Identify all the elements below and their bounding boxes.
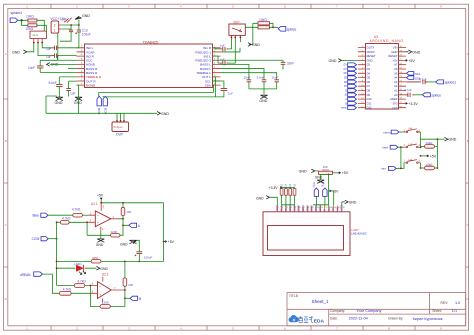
wire caps to RV [213, 27, 253, 63]
pin numbers U3 [361, 46, 403, 108]
svg-text:1uF: 1uF [228, 91, 233, 95]
svg-text:DK: DK [344, 72, 348, 75]
capacitor 5.6nF b [257, 76, 267, 89]
svg-text:1uF: 1uF [70, 91, 76, 95]
svg-text:15nF: 15nF [271, 76, 278, 80]
svg-text:Blue: Blue [33, 214, 40, 218]
svg-text:spkice: spkice [287, 28, 297, 32]
svg-text:3V3: 3V3 [393, 102, 398, 106]
svg-text:GND: GND [252, 43, 260, 47]
power flag +3.3V lcd [269, 186, 295, 190]
capacitor 4.7uF A3 [406, 78, 436, 85]
capacitor 1uF IN1L [220, 58, 229, 66]
wire OUT L [213, 77, 216, 97]
svg-text:D6: D6 [367, 80, 371, 84]
net port lcd K vertical [322, 182, 327, 205]
svg-text:+: + [99, 293, 101, 297]
ARDUINO NANO U3 [358, 35, 406, 110]
power flag +5V U4 [420, 155, 437, 159]
svg-text:spkice1: spkice1 [11, 11, 23, 15]
svg-text:D5: D5 [367, 76, 371, 80]
resistor 10k pair top [258, 18, 269, 29]
pins right U3 [399, 48, 407, 108]
resistor 120K fb U2.1 [86, 221, 123, 237]
svg-text:GND: GND [74, 101, 82, 105]
svg-text:REV:: REV: [441, 301, 449, 305]
resistor 1K pullup d [293, 183, 296, 204]
pins left U3 [358, 48, 366, 108]
svg-text:LED1: LED1 [74, 262, 82, 266]
svg-text:1uF: 1uF [46, 47, 52, 51]
svg-text:D4: D4 [367, 71, 371, 75]
svg-text:5.6nF: 5.6nF [49, 81, 57, 85]
ground flag U4 [437, 137, 457, 141]
resistor 10K pullup U2.1 [121, 203, 131, 226]
TOP LEFT CLUSTER [10, 11, 91, 60]
net port SCM vertical 1 [97, 96, 101, 114]
svg-text:GND: GND [100, 267, 108, 271]
net flag spkice1 right [436, 80, 457, 85]
power flag +5V right [163, 203, 175, 262]
op-amp U2.1 [88, 202, 118, 231]
svg-text:CCW: CCW [32, 237, 40, 241]
wire spkice1 to R divider [18, 20, 28, 25]
LED1 [56, 262, 97, 275]
svg-text:LAB162ADC: LAB162ADC [351, 232, 367, 236]
svg-text:GND: GND [82, 14, 90, 18]
svg-text:TDA8425: TDA8425 [143, 40, 158, 44]
capacitor 1uF vert [60, 30, 73, 41]
svg-text:B: B [5, 139, 7, 143]
resistor 4.7k R2 [57, 217, 89, 225]
svg-text:1K: 1K [293, 183, 296, 186]
svg-text:1K: 1K [289, 183, 292, 186]
svg-text:100uF: 100uF [144, 255, 153, 259]
svg-text:min: min [381, 167, 386, 171]
power flag +3.3V ard [406, 102, 418, 106]
wire resistors to U5 [37, 20, 47, 31]
svg-text:ARDUINO_NANO: ARDUINO_NANO [370, 39, 404, 43]
LEFT OF IC PASSIVES [28, 56, 82, 106]
ground GND top [75, 14, 90, 20]
switch U4.2 [404, 142, 421, 147]
wire bottom bus [46, 96, 157, 122]
svg-text:D12: D12 [367, 106, 372, 110]
svg-text:D7: D7 [367, 84, 371, 88]
wire DGND down [77, 85, 104, 113]
svg-text:spkice: spkice [431, 93, 441, 97]
svg-text:GND: GND [259, 99, 267, 103]
net flag A [129, 223, 141, 228]
wire caps common [249, 89, 277, 95]
svg-text:BLA: BLA [313, 182, 316, 187]
svg-text:menu: menu [341, 107, 348, 110]
capacitor 1uF SCL [221, 88, 234, 95]
svg-text:15nF: 15nF [244, 76, 251, 80]
svg-text:10kΩ: 10kΩ [25, 27, 33, 31]
svg-text:RESET: RESET [388, 54, 397, 58]
svg-text:10nF: 10nF [28, 66, 35, 70]
svg-text:A6: A6 [394, 67, 398, 71]
wire VCC rails [58, 20, 79, 61]
ground flag lcd top [299, 169, 319, 174]
svg-text:PJ-3x-xx: PJ-3x-xx [114, 127, 124, 129]
svg-text:1K: 1K [285, 183, 288, 186]
svg-text:1.0: 1.0 [455, 301, 460, 305]
svg-text:4.7uF: 4.7uF [404, 88, 412, 92]
pin names U3 left [367, 46, 376, 110]
potentiometer RV [229, 20, 245, 39]
pin names U1 left [86, 46, 102, 87]
pin names U1 right [195, 46, 212, 87]
wire BASS R pin [68, 68, 77, 70]
svg-text:GND: GND [315, 176, 323, 180]
wire 10k to spkice [245, 23, 278, 27]
ground flag AGND [47, 63, 77, 67]
capacitor 5.6nF [49, 77, 77, 97]
ground flag lcd left [256, 196, 277, 206]
net flag min3 [381, 167, 404, 171]
svg-text:Sheet:: Sheet: [432, 309, 442, 313]
ground flag RV [248, 43, 260, 48]
capacitor 1uF OUT R [66, 81, 76, 96]
svg-text:+5V: +5V [393, 58, 398, 62]
svg-text:D1/TX: D1/TX [367, 46, 375, 50]
svg-text:D10: D10 [367, 97, 372, 101]
ground flag ard left [329, 59, 358, 63]
net flag CCW [32, 237, 58, 242]
ARDUINO LEFT FLAGS [329, 59, 358, 110]
net flag Blue [33, 213, 73, 218]
capacitor 15nF c [271, 76, 279, 89]
svg-text:U2.1: U2.1 [91, 202, 98, 206]
svg-text:1uF: 1uF [46, 55, 52, 59]
svg-text:GND: GND [412, 50, 420, 54]
capacitor 1uF (IN2 R) [46, 53, 77, 58]
net flag B [125, 296, 141, 301]
svg-text:2022-11-04: 2022-11-04 [349, 317, 368, 321]
svg-text:VIN: VIN [393, 46, 398, 50]
power flag +5V U2.1 [97, 193, 104, 202]
junction node spkice1 [21, 19, 23, 21]
net flag uREAN [20, 272, 60, 293]
wire U4.1 right [421, 132, 438, 147]
logo EasyEDA [289, 315, 325, 324]
pins left of U1 [77, 48, 85, 85]
wire lcd pin bus [282, 204, 329, 207]
resistor 4.7k R1 [72, 208, 88, 218]
wire bottom +5V bus [57, 260, 164, 262]
switch U4.3 [404, 158, 421, 168]
svg-text:120K: 120K [102, 301, 109, 305]
encoder U5 [30, 31, 46, 43]
svg-text:GND: GND [391, 50, 397, 54]
svg-text:EDA: EDA [314, 318, 325, 324]
pins LCD top [277, 206, 342, 212]
svg-text:uREAN: uREAN [20, 273, 31, 277]
TITLE BLOCK [287, 293, 466, 326]
net flag spkice top [278, 27, 296, 32]
capacitor 1uF IN1R [220, 43, 229, 51]
ground flag ard right [406, 50, 420, 54]
svg-text:1/1: 1/1 [452, 309, 457, 313]
ARDUINO RIGHT SIDE [404, 50, 456, 106]
net port lcd A vertical [313, 182, 318, 206]
junction dots VCC rail [70, 24, 72, 26]
svg-text:GND: GND [448, 138, 456, 142]
net flag SCL [406, 72, 421, 77]
svg-text:D11: D11 [367, 101, 372, 105]
wire U5 pins down [27, 43, 52, 56]
wire PSEUDO nets [221, 48, 284, 63]
svg-text:A2: A2 [394, 84, 398, 88]
svg-text:Кирил Курильчик: Кирил Курильчик [413, 317, 443, 321]
resistor R 10k top [26, 15, 37, 22]
svg-text:DY: DY [344, 68, 348, 71]
wire VO down [328, 174, 330, 204]
svg-text:A3: A3 [394, 80, 398, 84]
net flag SDA [406, 76, 421, 81]
svg-text:100uF: 100uF [82, 32, 91, 36]
svg-text:Drawn By:: Drawn By: [388, 317, 403, 321]
svg-text:A0: A0 [394, 93, 398, 97]
svg-text:4.7kΩ: 4.7kΩ [63, 287, 72, 291]
resistor 10k U4.3 [420, 163, 439, 170]
svg-text:+5V: +5V [168, 240, 175, 244]
power flag +5V lcd top [339, 171, 349, 175]
svg-text:D13: D13 [392, 106, 397, 110]
capacitor 4.7uF A0 [404, 88, 422, 97]
svg-text:1: 1 [54, 28, 56, 32]
svg-text:D8: D8 [367, 89, 371, 93]
ground flag LED [96, 266, 108, 270]
svg-text:A1: A1 [394, 89, 398, 93]
svg-text:Company:: Company: [330, 309, 345, 313]
svg-text:A5: A5 [394, 71, 398, 75]
wire BASS/TREBLE L to caps [221, 64, 277, 79]
svg-text:10kΩ: 10kΩ [26, 15, 34, 19]
wire left rail x56 [56, 222, 58, 285]
capacitor 1uF small [61, 17, 71, 22]
svg-text:+3.3V: +3.3V [408, 102, 418, 106]
svg-text:spkice1: spkice1 [445, 81, 457, 85]
svg-text:5.6nF: 5.6nF [257, 76, 265, 80]
op-amp U2.2 [90, 273, 124, 303]
svg-text:10kΩ: 10kΩ [426, 141, 434, 145]
power flag +5V lcd2 [330, 189, 339, 205]
svg-text:A7: A7 [394, 63, 398, 67]
OPAMP SECTION [20, 193, 175, 308]
capacitor 15nF a [244, 76, 252, 89]
svg-text:GND: GND [55, 101, 63, 105]
ground flag OUT [157, 112, 169, 116]
svg-text:DGND: DGND [86, 83, 96, 87]
svg-text:menu: menu [383, 130, 391, 134]
LCD LAB162ADC module [263, 212, 367, 256]
resistor 1K pullup c [289, 183, 292, 204]
switch U4.1 [404, 127, 421, 133]
net flag spkice right [422, 93, 441, 98]
svg-text:GND: GND [120, 242, 128, 246]
connector CN VCC+12V [50, 17, 66, 33]
BOTTOM OF IC AREA [46, 85, 169, 136]
resistor 4.7k R4 [60, 287, 91, 295]
svg-text:1K: 1K [280, 183, 283, 186]
svg-text:U2.2: U2.2 [102, 273, 109, 277]
svg-text:+5V: +5V [430, 155, 437, 159]
capacitor 10nF [28, 56, 77, 73]
svg-text:med: med [382, 146, 388, 150]
resistor 10K lcd [319, 165, 340, 175]
svg-text:–: – [99, 285, 101, 289]
junction bottom bus [116, 120, 118, 122]
svg-text:Sheet_1: Sheet_1 [312, 299, 330, 304]
wire U2.1 out node [118, 219, 129, 226]
svg-text:10K: 10K [126, 210, 131, 214]
svg-text:AREF: AREF [390, 97, 398, 101]
svg-text:ab-rw: ab-rw [33, 34, 39, 37]
svg-text:BLK: BLK [322, 182, 325, 187]
svg-text:DY: DY [344, 64, 348, 67]
svg-text:Your Company: Your Company [357, 309, 382, 313]
svg-text:GND: GND [349, 201, 357, 205]
ground sym OUT R [74, 97, 82, 106]
resistor 3091 [91, 256, 101, 263]
ground flag left [12, 50, 27, 54]
svg-text:SDA: SDA [205, 83, 212, 87]
svg-text:D9: D9 [367, 93, 371, 97]
resistor 10K pullup U2.2 [123, 261, 133, 298]
svg-text:Date:: Date: [330, 317, 338, 321]
svg-text:–: – [97, 213, 99, 217]
ground sym caps [259, 95, 267, 103]
svg-text:4.7kΩ: 4.7kΩ [62, 217, 71, 221]
svg-text:33nF: 33nF [287, 62, 294, 66]
resistor 1K pullup a [280, 183, 283, 204]
svg-text:1uF: 1uF [220, 43, 225, 47]
resistor 4.7k R3 [57, 280, 91, 288]
net flag med2 [382, 145, 404, 168]
net flag D2..D12 column [348, 63, 357, 110]
connector OUT jack [112, 122, 129, 137]
svg-text:4.7kΩ: 4.7kΩ [77, 280, 86, 284]
capacitor C13 100uF [75, 29, 91, 48]
capacitor 1uF (IN2 L) [46, 46, 77, 51]
svg-text:+5V: +5V [342, 171, 349, 175]
svg-text:GND: GND [12, 50, 20, 54]
resistor R 10k bottom [25, 24, 37, 31]
svg-text:A: A [5, 52, 7, 56]
resistor 1K pullup b [285, 183, 288, 204]
svg-text:D2: D2 [367, 63, 371, 67]
pin names U3 right [388, 46, 397, 111]
svg-text:B: B [467, 139, 469, 143]
wire +5V rail U2.1 [101, 202, 163, 204]
svg-text:+: + [97, 221, 99, 225]
svg-text:10kΩ: 10kΩ [426, 163, 434, 167]
capacitor 100uF [135, 252, 153, 262]
svg-text:RESET: RESET [367, 54, 376, 58]
svg-text:1uF: 1uF [220, 58, 225, 62]
net flag spkice1 [10, 11, 22, 23]
svg-text:TITLE:: TITLE: [289, 294, 299, 298]
svg-text:+5V: +5V [408, 59, 415, 63]
svg-text:D3: D3 [367, 67, 371, 71]
RIGHT OF IC [99, 18, 297, 103]
wire SCL SDA stubs [99, 81, 224, 97]
power flag +5V ard [406, 59, 415, 63]
svg-text:4.7kΩ: 4.7kΩ [72, 208, 81, 212]
svg-text:+3.3V: +3.3V [269, 186, 279, 190]
pin numbers LCD [278, 207, 346, 209]
svg-text:D0/RX: D0/RX [367, 50, 375, 54]
svg-text:B: B [139, 297, 141, 301]
svg-text:OUT: OUT [116, 133, 123, 137]
net port SCM vertical 2 [103, 96, 107, 114]
pin numbers U1 [81, 45, 216, 85]
svg-text:A4: A4 [394, 76, 398, 80]
net flag menu1 [383, 130, 404, 134]
op-amp U1 TDA8425 [77, 40, 221, 87]
ground sym lcd mid [315, 174, 329, 183]
svg-text:GND: GND [299, 170, 307, 174]
svg-text:10K: 10K [128, 283, 133, 287]
wire U2.2 out node [124, 289, 126, 291]
pins right of U1 [213, 48, 221, 85]
svg-text:GND: GND [367, 58, 373, 62]
pin names LCD vertical [275, 205, 344, 211]
ground flag lcd right [342, 200, 357, 205]
svg-text:2: 2 [54, 23, 56, 27]
svg-text:GND: GND [96, 243, 104, 247]
ground sym 5.6nF [55, 97, 63, 106]
LCD BLOCK [256, 165, 367, 255]
capacitor 33nF [281, 62, 295, 70]
U4 SWITCH BLOCK [381, 127, 457, 171]
svg-text:GND: GND [256, 197, 264, 201]
ground sym U2.1 [96, 231, 105, 247]
svg-text:+5V: +5V [97, 193, 104, 197]
ground sym 100uF [120, 240, 139, 252]
svg-text:A: A [467, 52, 469, 56]
svg-text:GND: GND [329, 59, 337, 63]
svg-text:GND: GND [161, 112, 169, 116]
resistor 10k U4.2 [420, 139, 438, 168]
resistor 120K fb U2.2 [90, 285, 125, 309]
